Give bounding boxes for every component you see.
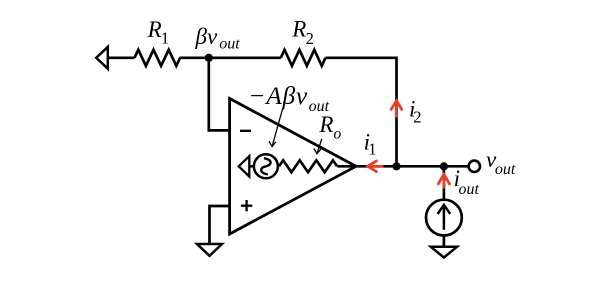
- node: junction at current source: [440, 162, 448, 170]
- svg-text:R: R: [318, 112, 333, 137]
- current arrow i1 (red, pointing left): [368, 165, 384, 168]
- op-amp U1: [230, 99, 356, 235]
- resistor Ro: [279, 160, 337, 172]
- svg-text:out: out: [219, 35, 240, 52]
- svg-text:o: o: [334, 126, 342, 143]
- wire non-inverting input to ground: [210, 206, 230, 245]
- dependent source arrowhead (open, pointing left): [239, 156, 250, 176]
- input arrow (open, pointing left): [96, 47, 108, 69]
- wire left input arrow to R1: [108, 56, 135, 59]
- current source arrow: [443, 205, 446, 230]
- dependent source circle: [254, 154, 278, 178]
- wire node to inverting input: [209, 58, 230, 131]
- current source Iout circle: [426, 200, 462, 236]
- resistor R1: [135, 50, 181, 66]
- vout open terminal: [469, 161, 480, 172]
- svg-text:R: R: [147, 17, 162, 42]
- wire stub source arrow to circle: [249, 165, 254, 168]
- svg-text:1: 1: [161, 28, 169, 47]
- svg-text:2: 2: [413, 107, 421, 126]
- wire R2 to top-right corner down to output node: [326, 58, 397, 167]
- svg-text:2: 2: [306, 29, 314, 48]
- wire current source to ground: [443, 236, 446, 248]
- plus input label: [241, 200, 252, 211]
- minus input label: [240, 130, 251, 132]
- wire output node to current source: [443, 166, 446, 200]
- wire R1 to R2 through node: [180, 56, 281, 59]
- node: output junction at i2: [392, 162, 400, 170]
- wire output line to vout terminal: [337, 165, 468, 168]
- current arrow i2 (red, pointing up): [395, 101, 398, 118]
- pointer arrow from Ro label to resistor: [317, 139, 322, 153]
- resistor R2: [281, 50, 326, 66]
- svg-text:R: R: [291, 17, 306, 42]
- svg-text:1: 1: [368, 140, 376, 159]
- ground (left, below op-amp plus input): [197, 244, 222, 256]
- svg-text:βv: βv: [195, 24, 218, 49]
- svg-text:out: out: [495, 161, 516, 178]
- svg-text:out: out: [459, 181, 480, 198]
- ground (below current source): [431, 247, 457, 258]
- pointer arrow from -Abeta vout label to source: [272, 109, 283, 147]
- sine symbol inside source: [261, 158, 270, 174]
- svg-text:−Aβv: −Aβv: [248, 81, 308, 110]
- current arrow iout (red, pointing up): [442, 174, 445, 188]
- node A dot (beta vout node): [205, 54, 213, 62]
